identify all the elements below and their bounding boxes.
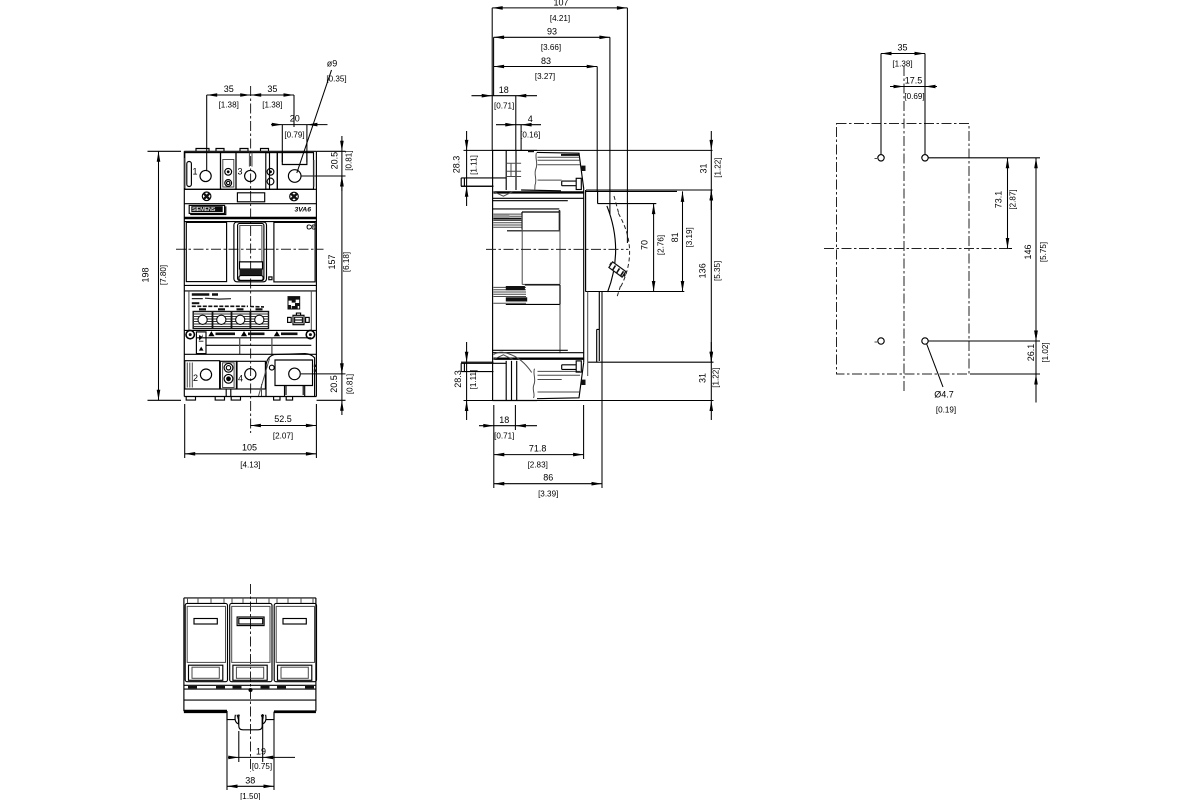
upper stack right slab (507, 210, 560, 231)
dim 20.5 bottom right (dim line) (301, 360, 346, 415)
dim 35 left (dim line) (207, 95, 294, 170)
svg-text:31: 31 (698, 373, 708, 383)
SIEMENS logo text (191, 206, 222, 212)
terminal pole 5 block (277, 153, 313, 190)
label dashed underline (192, 305, 264, 308)
label text row 1 (192, 293, 218, 296)
pole 3 circle (245, 170, 256, 181)
top shelf (461, 178, 506, 186)
warning triangle row1 c (274, 331, 280, 336)
dim 28.3 top (461, 131, 713, 206)
pole 3 slot (249, 153, 252, 167)
leader diameter 9 (297, 70, 332, 173)
clip dark hooks (237, 715, 265, 717)
divider 2 screws (267, 168, 274, 175)
svg-text:35: 35 (267, 84, 277, 94)
svg-text:[2.83]: [2.83] (528, 460, 548, 469)
svg-text:71.8: 71.8 (529, 444, 547, 454)
svg-text:ø9: ø9 (327, 59, 338, 69)
svg-text:[3.39]: [3.39] (538, 489, 558, 498)
svg-text:[1.11]: [1.11] (469, 370, 478, 390)
handle base (239, 276, 263, 281)
svg-text:107: 107 (553, 0, 568, 7)
dim 93 (494, 37, 610, 214)
connector icon (288, 313, 310, 325)
svg-text:2: 2 (193, 373, 198, 383)
dim 28.3 bottom (461, 342, 494, 420)
lines above notch (493, 350, 584, 352)
mid step line (522, 231, 560, 285)
right face panel (274, 222, 315, 282)
hole ticks (875, 159, 878, 343)
dim 31 bottom (464, 342, 714, 420)
dim 157 (dim line) (341, 176, 343, 374)
dial block hatched (193, 309, 268, 328)
svg-text:[5.75]: [5.75] (1039, 242, 1048, 262)
pole block 2 (230, 603, 272, 681)
datamatrix code (288, 297, 300, 309)
breaker outline left edge (183, 151, 185, 396)
svg-text:38: 38 (245, 775, 255, 785)
svg-text:4: 4 (238, 374, 243, 384)
svg-text:19: 19 (256, 747, 266, 757)
hole bottom left (878, 338, 884, 344)
svg-text:93: 93 (547, 27, 557, 37)
svg-text:[0.71]: [0.71] (494, 432, 514, 441)
plate bottom line (184, 329, 316, 331)
lower inner vertical (559, 304, 561, 353)
dial circles (198, 315, 264, 324)
pole block 1 (185, 603, 227, 681)
svg-text:[1.22]: [1.22] (714, 157, 723, 177)
svg-text:17.5: 17.5 (905, 76, 923, 86)
warning text b (248, 332, 265, 335)
bottom clamp block (576, 361, 581, 372)
svg-text:[3.66]: [3.66] (541, 43, 561, 52)
svg-text:86: 86 (543, 473, 553, 483)
dim 83 (494, 67, 598, 192)
bottom divider inner (223, 363, 235, 388)
left face panel (186, 222, 226, 281)
svg-text:198: 198 (141, 267, 151, 282)
dim 26.1 (970, 341, 1040, 403)
terminal roof (537, 152, 584, 188)
upper stack stripes (493, 214, 522, 227)
svg-text:[4.21]: [4.21] (550, 14, 570, 23)
inverted V notch (494, 355, 513, 360)
line under notch (493, 198, 584, 200)
rear edge (492, 150, 494, 400)
bottom dome curve (494, 352, 532, 372)
band bottom line (184, 203, 316, 205)
wire clamp tab (581, 166, 585, 171)
svg-text:[5.35]: [5.35] (713, 261, 722, 281)
icon flag (199, 334, 204, 342)
top tabs (188, 598, 314, 603)
terminal bottom thick (494, 191, 585, 193)
divider strip 3-5 (266, 153, 278, 190)
dial pointers above (199, 308, 263, 310)
svg-text:35: 35 (897, 43, 907, 53)
top edge tabs (196, 149, 269, 152)
right terminal inner box (275, 360, 313, 397)
lower stack black band 1 (506, 286, 525, 290)
clamp screw side (562, 181, 577, 186)
bottom clamp side (562, 365, 577, 370)
dim 70 (653, 204, 655, 292)
bottom pole 4 block (237, 361, 265, 389)
housing lines (184, 685, 316, 700)
bottom divider strip (220, 361, 236, 389)
hole bottom right (922, 338, 928, 344)
svg-text:73.1: 73.1 (994, 191, 1004, 209)
right edge clamp bars (185, 158, 314, 188)
strip verticals (240, 338, 272, 355)
front face (584, 189, 586, 363)
lower stack black band 2 (506, 297, 527, 301)
svg-text:52.5: 52.5 (274, 414, 292, 424)
divider strip 1-3 (221, 153, 237, 190)
dim 19 (228, 714, 295, 762)
bottom terminal stripes (538, 371, 581, 392)
pole 1 clamp bars (187, 162, 192, 187)
pole 4 circle (245, 369, 256, 380)
centerline vertical (250, 584, 252, 772)
handle grip dark (240, 269, 263, 276)
pole 2 circle (200, 369, 211, 380)
svg-text:[3.19]: [3.19] (685, 227, 694, 247)
dim 18 bottom (479, 405, 537, 430)
top edge (184, 598, 316, 711)
bottom thick edge (184, 710, 316, 713)
warning text a (216, 332, 236, 335)
breaker outline right edge (315, 151, 317, 396)
upper stack black band (493, 218, 521, 220)
strip bottom line (184, 353, 316, 355)
left icon column box (196, 332, 206, 354)
svg-text:35: 35 (224, 84, 234, 94)
handle grip hatched (609, 262, 626, 277)
divider screws (225, 168, 232, 175)
upper stack lines (493, 208, 560, 210)
leader diameter 4.7 (927, 344, 944, 388)
dim 38 (227, 714, 274, 790)
groove line 1 (184, 284, 316, 286)
body bottom edge (493, 400, 537, 402)
svg-text:[2.87]: [2.87] (1009, 189, 1018, 209)
svg-text:[0.81]: [0.81] (346, 374, 355, 394)
bottom terminal top thick (494, 358, 585, 360)
dim 73.1 (928, 158, 1040, 249)
feet marks (188, 686, 314, 688)
dim 20.5 top right (dim line) (301, 136, 346, 191)
body top edge (493, 149, 537, 151)
bottom shelf (461, 363, 506, 371)
svg-text:[0.81]: [0.81] (345, 150, 354, 170)
centerline vertical pole3 (250, 86, 252, 433)
right terminal hole circle (289, 368, 301, 380)
mounting feet (186, 397, 292, 401)
dim 18 top (472, 37, 538, 150)
vertical centerline (903, 66, 905, 392)
svg-text:26.1: 26.1 (1026, 344, 1036, 362)
bottom wavy (533, 369, 535, 398)
terminal plate bars (506, 163, 521, 176)
DIN rail tab outline (227, 711, 274, 720)
DIN tab U slot (239, 715, 262, 730)
DIN tab clip left (235, 715, 239, 724)
dim 86 (494, 292, 602, 489)
bottom pole 2 block (185, 361, 220, 389)
svg-text:105: 105 (242, 442, 257, 452)
handle window (240, 226, 262, 263)
roof black band (561, 154, 579, 156)
hole top right (922, 155, 928, 161)
terminal pole 3 block (236, 153, 270, 190)
terminal verticals (506, 150, 516, 190)
svg-text:70: 70 (640, 240, 650, 250)
escutcheon inner frame (238, 223, 264, 280)
svg-text:[1.22]: [1.22] (711, 367, 720, 387)
bottom edge line (184, 396, 316, 398)
svg-text:81: 81 (670, 232, 680, 242)
small pivot circle (269, 365, 274, 370)
svg-text:136: 136 (698, 263, 708, 278)
bottom divider screws (224, 363, 233, 372)
dim 198 (dim line left) (148, 151, 182, 400)
svg-text:[4.13]: [4.13] (240, 461, 260, 470)
svg-text:Ø4.7: Ø4.7 (934, 390, 954, 400)
band screw right (290, 192, 299, 201)
svg-text:[0.71]: [0.71] (494, 101, 514, 110)
handle arc dashed (614, 196, 630, 299)
svg-text:20.5: 20.5 (330, 152, 340, 170)
warning triangle row1 a (208, 331, 214, 336)
center dot (249, 688, 253, 692)
plate outline dash-dot (837, 124, 970, 375)
bottom terminal verticals / clamp bar (506, 361, 517, 401)
front lower cover (587, 292, 589, 377)
svg-text:[1.02]: [1.02] (1041, 342, 1050, 362)
svg-text:[0.69]: [0.69] (904, 92, 924, 101)
svg-text:[0.19]: [0.19] (936, 406, 956, 415)
dim 4 (496, 125, 541, 150)
screw band top line (184, 188, 316, 190)
dim 107 (492, 8, 627, 243)
svg-text:[0.16]: [0.16] (520, 131, 540, 140)
centerline horizontal front view (176, 248, 324, 250)
svg-text:SIEMENS: SIEMENS (192, 207, 216, 213)
strip screw left (186, 330, 194, 338)
warning triangle row2 (199, 347, 204, 351)
warning triangle row1 b (241, 331, 247, 336)
svg-text:[0.79]: [0.79] (284, 131, 304, 140)
svg-text:[0.35]: [0.35] (326, 75, 346, 84)
V notch (494, 191, 513, 196)
side centerline (486, 248, 629, 250)
band accessory window (237, 193, 264, 202)
slanted wire slot (259, 359, 270, 397)
strip screw right (306, 330, 314, 338)
dim 105 (dim line) (185, 404, 317, 458)
bottom right terminal dome (266, 354, 315, 397)
svg-text:[2.76]: [2.76] (656, 235, 665, 255)
svg-text:83: 83 (541, 56, 551, 66)
SIEMENS logo box (189, 205, 224, 213)
svg-text:[2.07]: [2.07] (273, 432, 293, 441)
svg-text:[3.27]: [3.27] (535, 72, 555, 81)
escutcheon step top (586, 191, 677, 203)
svg-text:1: 1 (192, 167, 197, 177)
svg-text:20.5: 20.5 (329, 375, 339, 393)
svg-text:CЄ: CЄ (306, 223, 316, 232)
svg-text:3: 3 (237, 167, 242, 177)
svg-text:[1.38]: [1.38] (892, 59, 912, 68)
escutcheon outer (234, 222, 267, 282)
pole 5 circle (mounting hole) (288, 170, 301, 183)
svg-text:[1.11]: [1.11] (470, 155, 479, 175)
svg-text:18: 18 (499, 85, 509, 95)
upper stack gray band (493, 214, 509, 217)
pole 2 clamp bars (187, 363, 192, 388)
bottom terminal roof (537, 362, 584, 398)
strip line 2 (196, 337, 311, 339)
svg-text:157: 157 (327, 254, 337, 269)
svg-text:146: 146 (1023, 244, 1033, 259)
strip line 3 (206, 344, 311, 346)
pole 5 slot cutout (282, 151, 307, 164)
thin line below (184, 221, 316, 223)
horizontal centerline (824, 248, 1009, 250)
terminal pole 1 block (185, 153, 221, 190)
svg-text:[1.50]: [1.50] (240, 792, 260, 800)
band screw left (202, 192, 211, 201)
dim 71.8 (494, 405, 584, 459)
dim 136 (588, 190, 714, 362)
svg-text:31: 31 (698, 163, 708, 173)
dim 52.5 (dim line) (250, 404, 316, 458)
pole block 3 (274, 603, 316, 681)
rating plate left border (189, 291, 311, 331)
dim 81 (585, 191, 684, 291)
handle mount step bottom (597, 292, 600, 363)
svg-text:[7.80]: [7.80] (159, 265, 168, 285)
svg-text:[6.18]: [6.18] (342, 252, 351, 272)
breaker top edge (184, 150, 316, 152)
lower stack slab (506, 285, 560, 305)
thick divider line (184, 217, 316, 219)
label text row 2 (192, 297, 231, 300)
right edge clamp tabs (314, 365, 317, 367)
divider strip inner (223, 160, 234, 188)
svg-text:4: 4 (528, 114, 533, 124)
handle arc solid (607, 206, 616, 292)
warning text c (281, 332, 298, 335)
svg-text:[0.75]: [0.75] (252, 762, 272, 771)
svg-text:3VA6: 3VA6 (295, 206, 312, 213)
svg-text:18: 18 (499, 415, 509, 425)
lower stack stripes (493, 287, 526, 303)
wavy break line (535, 153, 537, 190)
bottom wire tab (581, 380, 585, 385)
pole 1 circle (200, 170, 211, 181)
dim 31 top (586, 131, 713, 210)
dim 35 (881, 54, 925, 155)
dim 17.5 (890, 86, 937, 88)
clamp block (576, 178, 581, 189)
hole top left (878, 155, 884, 161)
terminal stripes top (538, 157, 581, 180)
groove line 2 (184, 290, 316, 292)
svg-text:28.3: 28.3 (451, 156, 461, 174)
label text row 3 (192, 302, 200, 304)
dim 146 (928, 158, 1040, 341)
terminal base lines (521, 189, 561, 192)
DIN tab clip right (262, 715, 266, 724)
svg-text:[1.38]: [1.38] (219, 101, 239, 110)
mid inner vertical (522, 211, 560, 285)
svg-text:[1.38]: [1.38] (262, 101, 282, 110)
small latch square (269, 277, 272, 280)
dim 20 (dim line) (271, 125, 328, 162)
svg-text:20: 20 (290, 114, 300, 124)
handle upper bar (240, 262, 263, 269)
svg-text:28.3: 28.3 (453, 370, 463, 388)
